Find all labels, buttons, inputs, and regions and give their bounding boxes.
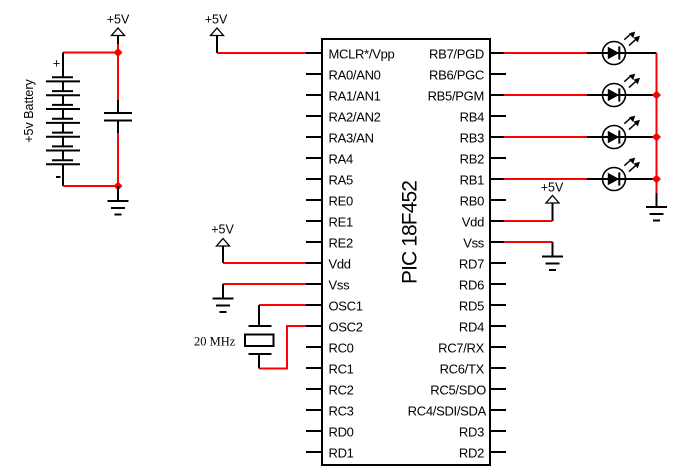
svg-text:+5V: +5V [211, 223, 234, 237]
node junction bottom [114, 182, 123, 191]
wire left Vdd [223, 262, 306, 264]
ground (LED rail) [656, 193, 658, 207]
svg-text:RC3: RC3 [329, 404, 354, 419]
power +5V (left Vdd) [211, 223, 234, 264]
wire right Vss [504, 241, 553, 243]
right pin labels [408, 47, 487, 461]
crystal X1 [245, 305, 274, 369]
svg-text:RC4/SDI/SDA: RC4/SDI/SDA [408, 404, 487, 419]
svg-text:RB6/PGC: RB6/PGC [429, 68, 484, 83]
wire +rail to capacitor [117, 53, 119, 101]
LED D3 [587, 116, 657, 149]
IC U1 PIC 18F452 body [322, 39, 490, 465]
svg-text:RA5: RA5 [329, 173, 353, 188]
wire RB3 to LED D3 [504, 136, 588, 138]
svg-text:+5v Battery: +5v Battery [22, 78, 36, 142]
wire battery + rail [117, 44, 119, 53]
svg-text:RB7/PGD: RB7/PGD [429, 47, 484, 62]
svg-text:+: + [53, 57, 60, 71]
wire capacitor to ground rail [117, 133, 119, 186]
svg-text:RE2: RE2 [329, 236, 353, 251]
ground (battery net) [117, 186, 119, 201]
wire RB7 to LED D1 [504, 52, 588, 54]
svg-text:RD7: RD7 [459, 257, 484, 272]
svg-text:Vdd: Vdd [329, 257, 351, 272]
svg-text:Vss: Vss [329, 278, 351, 293]
left pin stubs (pins 1,2,3,4,5,6,7,8,9,10,11,12,13,14,15,16,17,18,19,20) [306, 53, 322, 452]
svg-text:+5V: +5V [205, 13, 228, 27]
svg-text:RA1/AN1: RA1/AN1 [329, 89, 381, 104]
svg-text:PIC 18F452: PIC 18F452 [399, 181, 422, 284]
svg-text:RB0: RB0 [460, 194, 484, 209]
svg-text:RC6/TX: RC6/TX [440, 362, 485, 377]
svg-text:RA3/AN: RA3/AN [329, 131, 374, 146]
wire RB5 to LED D2 [504, 94, 588, 96]
svg-text:Vdd: Vdd [462, 215, 484, 230]
capacitor C1 [104, 100, 132, 133]
svg-text:Vss: Vss [463, 236, 485, 251]
wire LED cathode rail [656, 53, 658, 193]
wire battery top [63, 52, 118, 54]
right pin stubs [490, 53, 506, 452]
LED D4 [587, 158, 657, 191]
svg-text:RD0: RD0 [329, 425, 354, 440]
svg-text:RB4: RB4 [460, 110, 484, 125]
svg-text:MCLR*/Vpp: MCLR*/Vpp [329, 47, 395, 62]
power +5V (right Vdd) [541, 181, 564, 222]
LED D1 [587, 32, 657, 65]
node junction rail-D2 [652, 91, 661, 100]
svg-text:RE1: RE1 [329, 215, 353, 230]
svg-text:RB1: RB1 [460, 173, 484, 188]
svg-text:RD1: RD1 [329, 446, 354, 461]
left pin labels [329, 47, 395, 461]
svg-text:RC5/SDO: RC5/SDO [430, 383, 486, 398]
power +5V (battery net) [107, 13, 130, 46]
ground (left Vss) [222, 284, 224, 299]
svg-text:20 MHz: 20 MHz [194, 335, 236, 349]
ground (right Vss) [552, 242, 554, 257]
svg-text:+5V: +5V [107, 13, 130, 27]
svg-text:RC1: RC1 [329, 362, 354, 377]
svg-text:RB3: RB3 [460, 131, 484, 146]
svg-text:RD2: RD2 [459, 446, 484, 461]
wire battery bottom [63, 185, 118, 187]
svg-text:RD5: RD5 [459, 299, 484, 314]
node junction top [114, 48, 123, 57]
wire OSC1 [259, 304, 306, 306]
svg-text:RD3: RD3 [459, 425, 484, 440]
wire OSC2 to crystal [259, 326, 306, 369]
svg-text:RC7/RX: RC7/RX [438, 341, 485, 356]
node junction rail-D3 [652, 133, 661, 142]
wire RB1 to LED D4 [504, 178, 588, 180]
svg-text:RA2/AN2: RA2/AN2 [329, 110, 381, 125]
svg-text:RD6: RD6 [459, 278, 484, 293]
svg-text:RD4: RD4 [459, 320, 484, 335]
wire MCLR to +5V [217, 52, 306, 54]
power +5V (MCLR net) [205, 13, 228, 54]
LED D2 [587, 74, 657, 107]
svg-text:RA0/AN0: RA0/AN0 [329, 68, 381, 83]
svg-text:OSC1: OSC1 [329, 299, 363, 314]
wire left Vss [223, 283, 306, 285]
svg-text:RA4: RA4 [329, 152, 353, 167]
svg-text:+5V: +5V [541, 181, 564, 195]
svg-text:RE0: RE0 [329, 194, 353, 209]
svg-text:RC2: RC2 [329, 383, 354, 398]
svg-text:OSC2: OSC2 [329, 320, 363, 335]
node junction rail-D4 [652, 175, 661, 184]
battery BT1 +5v [46, 53, 80, 187]
svg-text:RB2: RB2 [460, 152, 484, 167]
wire right Vdd [504, 220, 553, 222]
svg-text:RB5/PGM: RB5/PGM [428, 89, 484, 104]
svg-text:RC0: RC0 [329, 341, 354, 356]
